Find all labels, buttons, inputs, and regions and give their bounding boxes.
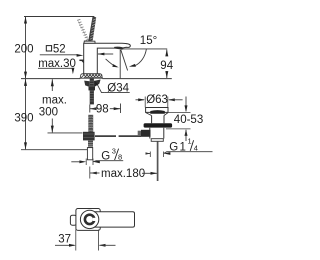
dim 98 tick left — [89, 105, 91, 113]
svg-text:200: 200 — [14, 44, 33, 56]
dim max180 arrow right — [151, 172, 158, 175]
dim 94 arrow down — [165, 71, 168, 78]
dim 98 arrow right — [114, 107, 121, 110]
dim dia63 ext right — [167, 97, 169, 108]
label dia34 arrow — [95, 81, 99, 87]
dim 37 line right — [100, 244, 116, 246]
svg-text:15°: 15° — [140, 35, 157, 47]
datum line hose connection — [48, 132, 83, 134]
dim 37 arrow left — [69, 244, 76, 247]
supply tube G3per8 — [87, 148, 92, 160]
dim 40-53 line bottom — [185, 130, 187, 141]
dim 98 arrow left — [90, 107, 97, 110]
svg-text:98: 98 — [96, 104, 109, 116]
vertical stream reference line — [119, 50, 121, 79]
svg-text:max.180: max.180 — [101, 168, 145, 180]
dim 200 arrow down — [24, 72, 27, 79]
deck line right — [102, 78, 171, 80]
mounting shank threaded — [90, 79, 94, 105]
drain upper body — [152, 116, 164, 124]
drain locknut — [144, 123, 173, 127]
base plate hatched — [80, 74, 102, 79]
dim 94 line bottom — [166, 71, 168, 78]
label max30 down arrow — [72, 68, 75, 75]
svg-text:300: 300 — [39, 107, 58, 119]
spout reach arrow pointing left — [98, 53, 113, 55]
dim G1quarter arrow left — [146, 152, 151, 154]
mounting washer right — [94, 80, 101, 88]
dim dia63 arrow right — [168, 98, 175, 101]
dim max180 line right — [142, 172, 157, 174]
dim G3per8 arrow left — [79, 160, 86, 163]
svg-text:max.: max. — [42, 95, 67, 107]
dim 40-53 ext top — [169, 112, 191, 114]
drain side outlet cap — [138, 131, 141, 136]
deck line left — [21, 78, 80, 80]
label dia34 leader — [96, 83, 104, 93]
label square52 symbol — [46, 46, 51, 51]
svg-text:390: 390 — [14, 113, 33, 125]
drain flange — [146, 108, 168, 113]
top reference line — [24, 16, 94, 18]
dim max300 arrow up — [51, 79, 54, 86]
dim 390 arrow down — [24, 142, 27, 149]
braided hose lower stub — [88, 141, 93, 148]
dim max180 arrow left — [90, 172, 97, 175]
drain tailpipe — [157, 141, 159, 181]
dim 390 line — [25, 79, 27, 149]
dim G1quarter arrow right — [164, 152, 171, 155]
dim 390 arrow up — [24, 79, 27, 86]
dim 37 ext right — [98, 230, 100, 251]
svg-text:40-53: 40-53 — [174, 114, 203, 126]
dim 37 ext left — [75, 230, 77, 251]
faucet body and spout silhouette — [84, 43, 131, 73]
dim 98 line left — [90, 108, 96, 110]
dim 200 line — [25, 17, 27, 78]
dim max300 line bottom — [51, 119, 53, 133]
lever base — [84, 41, 95, 43]
lever open position hatched — [77, 19, 89, 40]
svg-text:37: 37 — [58, 233, 71, 245]
dim 98 line right — [110, 108, 121, 110]
dim G3per8 tick left — [85, 159, 87, 166]
drain bottom collar — [151, 139, 163, 142]
label G1quarter underline — [164, 152, 213, 154]
angle arc left arrow — [112, 64, 118, 67]
dim max300 arrow down — [51, 126, 54, 133]
dim 200 arrow up — [24, 17, 27, 24]
dim 37 line left — [55, 244, 75, 246]
lever solid — [88, 16, 96, 42]
dim dia63 ext left — [144, 97, 146, 108]
drain side outlet — [141, 130, 151, 137]
svg-text:52: 52 — [53, 43, 66, 55]
dim 94 arrow up — [165, 49, 168, 56]
dim G3per8 tick right — [92, 159, 94, 166]
dim G1quarter tick left — [149, 152, 151, 158]
angle arc right arrow — [129, 64, 136, 67]
braided hose upper — [88, 115, 93, 136]
label G3per8 underline — [93, 161, 123, 162]
svg-text:1: 1 — [188, 137, 192, 146]
dim 37 arrow right — [99, 244, 106, 247]
svg-text:94: 94 — [160, 60, 173, 72]
dim 40-53 arrow up — [185, 129, 188, 136]
dim dia63 arrow left — [138, 98, 145, 101]
dim max180 tick left — [89, 167, 91, 179]
label square52 arrow — [77, 54, 84, 57]
slanted stream line 15deg — [121, 50, 128, 71]
dim G1quarter tick right — [163, 152, 165, 158]
dim 40-53 arrow down — [185, 105, 188, 112]
svg-text:Ø63: Ø63 — [146, 94, 168, 106]
dim 98 extension line — [120, 104, 122, 114]
label max30 underline — [38, 67, 73, 69]
top view tab — [70, 215, 76, 225]
top view inner ring — [85, 215, 94, 224]
mounting washer left — [84, 81, 90, 87]
angle arc right — [134, 49, 146, 66]
dim G3per8 arrow right — [93, 160, 100, 163]
top view spout rect — [94, 212, 135, 227]
horizontal hose to drain — [95, 135, 141, 137]
label square52 leader — [40, 54, 78, 56]
dim max300 line top — [51, 79, 53, 91]
drain lower body — [150, 128, 164, 139]
drain flange chamfer — [146, 113, 168, 116]
label dia34 underline — [105, 92, 130, 94]
top view square body — [76, 209, 100, 231]
aerator level line — [122, 48, 167, 50]
elbow fitting — [83, 132, 95, 141]
svg-text:3: 3 — [112, 147, 116, 156]
aerator — [114, 47, 123, 50]
drain plug cap — [150, 110, 165, 114]
clip mark on body edge — [79, 59, 84, 61]
top view ring gap — [93, 218, 97, 221]
dim 94 line top — [166, 50, 168, 56]
top view outer circle — [80, 210, 98, 228]
dim 40-53 ext bottom — [166, 128, 191, 130]
angle arc left — [106, 59, 117, 67]
datum line hose end — [21, 149, 87, 151]
dim dia63 line left — [136, 99, 145, 101]
mounting nut — [89, 87, 96, 91]
dim dia63 line right — [169, 99, 183, 101]
dim 40-53 line top — [185, 97, 187, 112]
